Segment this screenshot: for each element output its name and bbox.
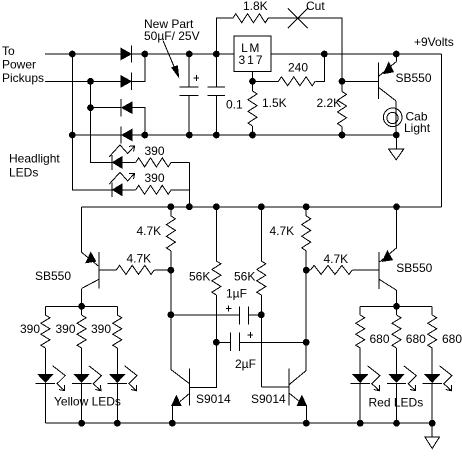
wire: +9V row 207	[82, 206, 442, 208]
ground: top section	[389, 135, 404, 160]
resistor R10 56K no2	[257, 207, 266, 315]
wire: pickup B row	[45, 80, 121, 82]
svg-text:4.7K: 4.7K	[137, 224, 162, 238]
node: pickup A / row54	[69, 51, 76, 58]
LED Y3 yellow	[108, 374, 127, 423]
arrow: Y1 emission	[53, 366, 65, 391]
label: Cab Light	[404, 110, 431, 136]
wire: pickup A top row	[45, 53, 121, 55]
resistor R17 680 no2	[392, 306, 401, 374]
node: row135 1.5K bottom	[249, 132, 256, 139]
wire: 1.8K bypass branch	[216, 18, 232, 54]
node: 1uF left	[168, 311, 175, 318]
svg-text:680: 680	[406, 332, 426, 346]
capacitor C2 0.1	[208, 54, 226, 135]
node: Q2 base junction	[168, 267, 175, 274]
node: row207 Q3 emitter	[393, 203, 400, 210]
node: row207 56K no2	[258, 203, 265, 210]
node: row135 pickup A	[69, 132, 76, 139]
diode D4	[121, 126, 132, 143]
node: D1-D2 cathodes	[142, 51, 149, 58]
node: rail R3	[429, 420, 436, 427]
svg-text:317: 317	[238, 53, 264, 67]
node: D3-D4 anodes	[142, 132, 149, 139]
LED Y1 yellow	[36, 374, 55, 423]
node: rail R1	[357, 420, 364, 427]
svg-text:Cut: Cut	[306, 0, 325, 13]
node: row207 headlight column	[186, 203, 193, 210]
node: rail Q4 emitter	[169, 420, 176, 427]
svg-text:Red LEDs: Red LEDs	[369, 396, 424, 410]
resistor R13 390 no1	[41, 306, 50, 374]
LED Y2 yellow	[72, 374, 91, 423]
node: Q2 collector / 390 bank	[78, 303, 85, 310]
node: base branch junction	[339, 78, 346, 85]
svg-text:2µF: 2µF	[235, 357, 256, 371]
wire: right collector column	[305, 270, 307, 342]
svg-text:SB550: SB550	[396, 71, 432, 85]
node: row3 pickup B	[87, 104, 94, 111]
arrow: Y3 emission	[125, 366, 138, 391]
resistor R8 4.7K vertical left	[166, 207, 175, 270]
node: row207 56K no1	[213, 203, 220, 210]
svg-text:4.7K: 4.7K	[127, 252, 152, 266]
node: row207 4.7K left	[168, 203, 175, 210]
wire: Q4 base drop	[171, 315, 189, 384]
node: pickup B junction	[87, 78, 94, 85]
resistor R4 2.2K	[338, 81, 347, 135]
diode D2	[121, 73, 132, 90]
transistor Q5 S9014 (right)	[289, 342, 306, 423]
arrow: HL1 emission	[109, 145, 134, 157]
diode D1	[121, 45, 132, 62]
wire: ground row 135	[72, 134, 396, 136]
node: row207 4.7K right	[303, 203, 310, 210]
node: row135 50uF bottom	[186, 132, 193, 139]
node: 2uF right	[303, 339, 310, 346]
resistor R9 56K no1	[212, 207, 221, 342]
node: 2uF left	[213, 339, 220, 346]
svg-text:390: 390	[145, 144, 165, 158]
svg-text:SB550: SB550	[396, 261, 432, 275]
transistor Q4 S9014 (left)	[172, 342, 217, 423]
node: rail R2	[393, 420, 400, 427]
svg-text:Light: Light	[404, 121, 431, 135]
LED R1 red	[351, 374, 370, 423]
resistor R7 4.7K horizontal left	[99, 265, 171, 274]
capacitor C3 1uF	[171, 306, 261, 325]
LED HL2 (headlight)	[112, 183, 136, 198]
node: 240 output junction	[321, 51, 328, 58]
node: row135 lamp bottom	[393, 132, 400, 139]
regulator U1 LM317	[234, 36, 271, 72]
svg-text:1.5K: 1.5K	[262, 96, 287, 110]
svg-text:4.7K: 4.7K	[270, 224, 295, 238]
svg-text:Yellow LEDs: Yellow LEDs	[54, 395, 121, 409]
transistor Q3 SB550 (right)	[379, 207, 396, 306]
node: row135 0.1 bottom	[213, 132, 220, 139]
wire: ground rail	[45, 422, 432, 424]
resistor R12 4.7K horizontal right	[306, 265, 379, 274]
resistor R6 390 (HL2)	[136, 185, 190, 194]
LED R3 red	[423, 374, 442, 423]
node: regulator input junction	[213, 51, 220, 58]
wire: LM317 adj pin	[252, 72, 254, 82]
node: 50uF top	[186, 51, 193, 58]
node: Q5 collector junction	[303, 267, 310, 274]
resistor R18 680 no3	[428, 306, 437, 374]
arrow: R2 emission	[404, 366, 417, 391]
svg-text:1µF: 1µF	[226, 287, 247, 301]
arrow: HL2 emission	[109, 172, 134, 184]
svg-text:680: 680	[442, 332, 462, 346]
resistor R11 4.7K vertical right	[302, 207, 311, 270]
wire: headlight return column	[188, 162, 190, 206]
wire: left timing column	[170, 270, 172, 315]
svg-text:2.2K: 2.2K	[317, 96, 342, 110]
svg-text:390: 390	[91, 322, 111, 336]
node: rail Y3	[114, 420, 121, 427]
svg-text:50µF/ 25V: 50µF/ 25V	[144, 29, 200, 43]
wire: Q2 emitter drop	[81, 207, 83, 253]
svg-text:390: 390	[20, 322, 40, 336]
svg-text:56K: 56K	[234, 270, 255, 284]
node: 1uF right	[258, 311, 265, 318]
svg-text:0.1: 0.1	[226, 98, 243, 112]
transistor Q1 SB550	[379, 54, 397, 135]
wire: bypass to base branch	[268, 18, 342, 81]
resistor R15 390 no3	[113, 306, 122, 374]
wire: +9V right rail	[441, 54, 443, 207]
svg-text:S9014: S9014	[251, 392, 286, 406]
capacitor C1 50uF	[180, 54, 200, 135]
LED HL1 (headlight)	[112, 155, 136, 170]
capacitor C4 2uF	[216, 332, 306, 351]
node: Q1 emitter on output row	[393, 51, 400, 58]
svg-text:680: 680	[370, 332, 390, 346]
wire: LM317 output row	[271, 53, 442, 55]
svg-text:+9Volts: +9Volts	[414, 35, 454, 49]
svg-text:390: 390	[56, 322, 76, 336]
ground: bottom right	[425, 423, 440, 448]
svg-text:To: To	[2, 44, 15, 58]
label: To Power Pickups	[2, 44, 44, 85]
svg-text:Pickups: Pickups	[2, 71, 44, 85]
node: ADJ junction	[249, 78, 256, 85]
wire: pickup B vertical	[90, 81, 92, 107]
svg-text:4.7K: 4.7K	[324, 252, 349, 266]
svg-text:SB550: SB550	[35, 269, 71, 283]
arrow: R1 emission	[368, 366, 381, 391]
wire: 390 bank top row	[45, 305, 117, 307]
diode D3	[121, 99, 132, 116]
resistor R5 390 (HL1)	[136, 158, 190, 167]
wire: D3 anode to negative rail	[132, 108, 145, 135]
node: Q3 collector / 680 bank	[393, 303, 400, 310]
wire: Q1 base row	[342, 80, 379, 82]
wire: row 54 rectifier output to LM317 input	[132, 53, 235, 55]
lamp: cab light	[383, 108, 402, 127]
wire: Q5 base drop	[261, 315, 289, 387]
svg-text:S9014: S9014	[196, 392, 231, 406]
svg-text:56K: 56K	[189, 270, 210, 284]
wire: pickup A vertical	[71, 54, 73, 135]
wire: pickup B feed to headlight LED 1	[91, 108, 112, 163]
arrow: R3 emission	[440, 366, 453, 391]
svg-text:1.8K: 1.8K	[243, 0, 268, 13]
svg-text:240: 240	[288, 61, 308, 75]
label arrow to 50uF	[163, 41, 179, 77]
wire: row3 to D3	[91, 107, 121, 109]
label: New Part 50uF/25V	[144, 17, 200, 43]
svg-text:390: 390	[145, 171, 165, 185]
arrow: Y2 emission	[89, 366, 102, 391]
wire: 680 bank top row	[360, 305, 432, 307]
wire: pickup A feed to headlight LED 2	[72, 135, 112, 190]
node: rail Q5 emitter	[303, 420, 310, 427]
label: Headlight LEDs	[9, 152, 60, 180]
svg-text:Power: Power	[2, 58, 36, 72]
resistor R2 1.5K	[248, 81, 257, 135]
LED R2 red	[387, 374, 406, 423]
node: row135 2.2K bottom	[339, 132, 346, 139]
transistor Q2 SB550 (left)	[82, 252, 99, 306]
cut mark X	[288, 8, 308, 28]
resistor R16 680 no1	[356, 306, 365, 374]
resistor R3 240	[253, 54, 325, 86]
node: rail Y2	[78, 420, 85, 427]
resistor R1 1.8K	[233, 14, 268, 23]
resistor R14 390 no2	[77, 306, 86, 374]
svg-text:Headlight: Headlight	[9, 152, 60, 166]
svg-text:LEDs: LEDs	[9, 166, 38, 180]
wire: D2 cathode up to + rail	[132, 54, 145, 81]
